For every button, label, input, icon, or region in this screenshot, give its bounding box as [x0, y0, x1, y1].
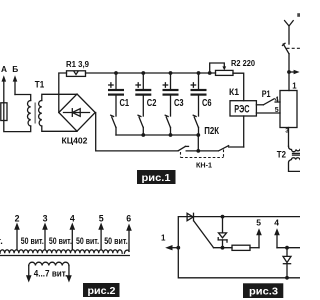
resistor R — [232, 245, 250, 250]
wire tap4 to diode — [277, 247, 300, 249]
plus sign C2 — [136, 83, 140, 87]
node dot zener bottom — [221, 246, 225, 250]
switch S6 — [193, 115, 198, 135]
capacitor C2 — [135, 73, 151, 116]
terminal arrow B — [13, 75, 18, 94]
wire R2 to relay K1 — [233, 73, 244, 101]
switch S1 — [111, 115, 116, 135]
tap 5 arrow — [98, 214, 104, 250]
wire bridge left vertex up to R1 — [59, 73, 67, 113]
wire fuse bottom to primary bottom — [4, 121, 31, 132]
node dot antenna junction — [287, 70, 291, 74]
svg-text:С2: С2 — [147, 98, 157, 109]
antenna Y symbol — [285, 21, 294, 26]
svg-text:КЦ402: КЦ402 — [62, 136, 88, 146]
P1 switch blade — [256, 99, 274, 105]
svg-text:1: 1 — [161, 234, 166, 243]
tap 3 arrow — [42, 214, 48, 250]
tap 2 arrow — [14, 214, 20, 250]
terminal arrow A — [2, 75, 7, 103]
node dot R2 branch — [208, 71, 212, 75]
node dot S3 bottom — [169, 133, 173, 137]
node dot diode top — [285, 246, 289, 250]
top bus wire — [86, 72, 216, 74]
pin 3 wire and label — [285, 127, 289, 146]
transformer T2 core — [293, 153, 301, 155]
svg-text:А: А — [1, 64, 7, 74]
transformer T1 secondary winding — [39, 101, 42, 127]
plus sign C3 — [163, 83, 167, 87]
antenna switch blade — [283, 44, 289, 54]
wire junction up to switch — [288, 54, 290, 72]
svg-text:Б: Б — [12, 64, 18, 74]
potentiometer R2 — [216, 70, 234, 75]
bridge internal diode — [64, 109, 90, 117]
svg-text:3: 3 — [43, 214, 48, 224]
plus sign C6 — [191, 83, 195, 87]
svg-text:рис.1: рис.1 — [142, 172, 171, 184]
capacitor C1 — [108, 73, 124, 116]
arrow right at junction — [289, 70, 300, 74]
module box outline — [178, 217, 300, 278]
capacitor C3 — [163, 73, 179, 116]
wire B to primary top — [15, 95, 31, 101]
svg-text:4: 4 — [70, 214, 75, 224]
svg-text:5: 5 — [256, 217, 261, 227]
svg-text:П2К: П2К — [204, 126, 219, 137]
fuse FU1 — [1, 103, 7, 121]
svg-text:50 вит.: 50 вит. — [49, 236, 72, 247]
svg-text:рис.2: рис.2 — [88, 285, 116, 297]
fig.1 caption box — [137, 170, 176, 184]
tap 4 arrow — [70, 214, 76, 250]
node dot lower wire — [196, 149, 200, 153]
relay K1 box REС — [230, 101, 256, 116]
svg-text:К1: К1 — [229, 86, 239, 97]
node dot C6 top — [197, 71, 201, 75]
svg-text:Т2: Т2 — [277, 150, 286, 160]
node dot diode bottom — [285, 276, 289, 280]
wire bridge right vertex down — [95, 113, 178, 151]
dashed actuator line — [287, 47, 301, 49]
wire to resistor — [214, 247, 233, 249]
R2 wiper loop wire — [210, 63, 227, 73]
svg-text:R2 220: R2 220 — [231, 58, 255, 68]
svg-text:5: 5 — [275, 107, 279, 114]
svg-text:4: 4 — [274, 217, 279, 227]
node dot C2 top — [141, 71, 145, 75]
wire resistor to tap5 — [250, 247, 259, 249]
node dot C3 top — [169, 71, 173, 75]
svg-text:5: 5 — [99, 214, 104, 224]
bridge rectifier KC402 diamond — [59, 94, 95, 131]
tap 5 arrow — [256, 217, 262, 247]
wire relay K1 bottom — [243, 116, 245, 147]
secondary pickup winding — [29, 262, 69, 265]
transformer T2 primary winding — [289, 146, 301, 151]
coil L1 scalloped winding — [0, 250, 122, 253]
svg-text:рис.3: рис.3 — [249, 286, 278, 298]
svg-text:С1: С1 — [120, 98, 130, 109]
transformer T2 secondary winding — [289, 158, 301, 172]
node dot C1 top — [114, 71, 118, 75]
pin 1 wire and label — [289, 72, 297, 91]
capacitor C6 — [191, 73, 207, 116]
svg-text:4: 4 — [275, 97, 279, 104]
zener VD2 — [218, 217, 227, 248]
svg-text:1: 1 — [292, 82, 297, 91]
coil end curl — [124, 250, 129, 253]
antenna lead wire — [288, 26, 290, 44]
tap 6 arrow — [126, 214, 132, 252]
svg-text:РЭС: РЭС — [234, 104, 249, 116]
diagonal wire from VD1 — [194, 221, 214, 248]
fig.2 caption box — [83, 283, 120, 297]
node dot S2 bottom — [141, 133, 145, 137]
pickup right down arrow — [66, 266, 72, 283]
switch tick — [283, 43, 286, 45]
diode VD3 — [283, 248, 291, 278]
node dot zener top — [221, 215, 225, 219]
button KN-1 right contact — [219, 146, 244, 151]
svg-text:т.: т. — [0, 236, 3, 246]
svg-text:С3: С3 — [174, 98, 184, 109]
tap 4 arrow — [274, 217, 280, 247]
fig.3 caption box — [243, 283, 283, 298]
svg-text:2: 2 — [15, 214, 20, 224]
wire secondary bottom to bridge bottom vertex — [42, 126, 77, 131]
svg-text:3: 3 — [285, 127, 289, 134]
svg-text:R1 3,9: R1 3,9 — [66, 59, 89, 69]
svg-text:Р1: Р1 — [262, 89, 271, 99]
node dot S6 bottom — [196, 133, 200, 137]
link bus to lower wire — [197, 135, 199, 151]
module U1 box — [280, 91, 297, 128]
svg-text:4...7 вит.: 4...7 вит. — [34, 269, 68, 279]
svg-text:6: 6 — [126, 214, 131, 224]
svg-text:50 вит.: 50 вит. — [76, 236, 99, 247]
diode VD1 on top edge — [187, 213, 193, 220]
svg-text:50 вит.: 50 вит. — [21, 236, 44, 247]
switch S3 — [165, 115, 170, 135]
switch bottom bus — [116, 134, 198, 136]
switch S2 — [138, 115, 143, 135]
pickup left down arrow — [26, 266, 32, 283]
svg-text:С6: С6 — [202, 98, 212, 109]
resistor R1 — [67, 71, 86, 77]
pin 4 tick — [275, 97, 280, 104]
svg-text:КН-1: КН-1 — [196, 160, 213, 169]
pin 1 arrow — [161, 234, 178, 251]
cut text mark top right corner — [297, 13, 300, 17]
transformer T1 primary winding — [27, 101, 30, 127]
transformer T1 core — [34, 103, 36, 124]
node dot pin1 — [176, 246, 180, 250]
svg-text:50 вит.: 50 вит. — [104, 236, 128, 247]
plus sign C1 — [109, 83, 113, 87]
svg-text:Т1: Т1 — [35, 78, 44, 89]
wire secondary top to bridge top vertex — [42, 94, 77, 100]
button KN-1 left contact — [178, 146, 218, 151]
dashed actuator KN-1 — [181, 150, 224, 158]
coil L1 base line — [0, 255, 129, 257]
pin 5 wire — [256, 107, 280, 114]
